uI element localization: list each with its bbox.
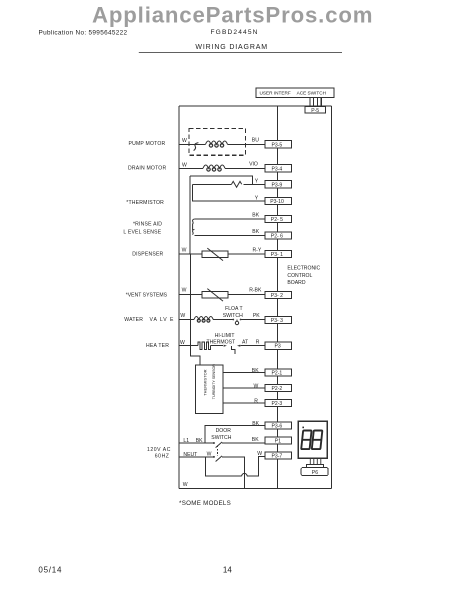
wire top border bbox=[179, 105, 331, 107]
junction dot L1 switch contact bbox=[213, 442, 215, 444]
svg-text:Y: Y bbox=[255, 178, 259, 184]
float switch contacts and float bbox=[236, 320, 238, 322]
wire electronic control board bus bbox=[276, 106, 278, 489]
svg-text:W: W bbox=[182, 287, 187, 293]
svg-text:60HZ: 60HZ bbox=[155, 453, 170, 459]
wire thermistor to P3-10 bbox=[192, 184, 264, 201]
svg-text:BK: BK bbox=[196, 438, 203, 444]
svg-text:P3-10: P3-10 bbox=[270, 199, 284, 205]
door switch pole 2 bbox=[216, 456, 222, 462]
svg-text:R: R bbox=[254, 398, 258, 404]
svg-text:SWITCH: SWITCH bbox=[211, 435, 231, 441]
svg-text:P3-5: P3-5 bbox=[272, 142, 283, 148]
heater element bbox=[198, 342, 211, 349]
svg-text:P2-2: P2-2 bbox=[272, 386, 283, 392]
wire dispenser row bbox=[179, 253, 265, 255]
svg-text:USER INTERF: USER INTERF bbox=[260, 91, 291, 96]
connector P3-3 bbox=[265, 316, 292, 323]
wire W bus water valve to turbidity sensor bbox=[191, 319, 201, 365]
display pedestal bar bbox=[306, 465, 323, 468]
wire thermistor loop to P3-9 bbox=[190, 176, 252, 184]
svg-text:P3: P3 bbox=[275, 344, 281, 350]
svg-text:Publication No: 5995645222: Publication No: 5995645222 bbox=[39, 30, 128, 37]
connector P3-6 bbox=[265, 422, 292, 429]
connector P3 heater bbox=[265, 342, 292, 349]
door switch pole 1 bbox=[216, 442, 222, 448]
svg-text:W: W bbox=[183, 482, 188, 488]
svg-text:ELECTRONIC: ELECTRONIC bbox=[287, 266, 320, 272]
svg-text:P2-1: P2-1 bbox=[272, 371, 283, 377]
dispenser actuator bbox=[202, 251, 228, 257]
display pins bbox=[310, 458, 321, 465]
pump motor thermal protector bbox=[194, 143, 199, 151]
door switch gang linkage bbox=[216, 446, 218, 456]
svg-text:W: W bbox=[180, 340, 185, 346]
svg-text:W: W bbox=[180, 313, 185, 319]
svg-text:W: W bbox=[257, 451, 262, 457]
connector P3-9 bbox=[265, 181, 292, 188]
rinse aid level sense connector bbox=[192, 219, 194, 235]
seven segment display module bbox=[298, 421, 327, 458]
svg-text:P6: P6 bbox=[312, 470, 318, 476]
svg-text:W: W bbox=[254, 383, 259, 389]
wire W bus vent to water valve bbox=[190, 295, 192, 320]
svg-text:Y: Y bbox=[255, 196, 259, 202]
turbidity sensor box bbox=[195, 365, 223, 414]
svg-text:W: W bbox=[182, 138, 187, 144]
svg-text:P2- 5: P2- 5 bbox=[271, 217, 283, 223]
hi-limit thermostat bimetal bbox=[231, 346, 235, 354]
svg-text:P3- 3: P3- 3 bbox=[271, 318, 283, 324]
connector P2-5 bbox=[265, 215, 292, 222]
svg-text:HI-LIMIT: HI-LIMIT bbox=[215, 333, 235, 339]
vent actuator bbox=[202, 292, 228, 298]
wire W bus dispenser to vent bbox=[190, 254, 192, 295]
connector P3-1 bbox=[265, 251, 292, 258]
pump motor dashed enclosure bbox=[189, 129, 246, 156]
svg-text:DRAIN MOTOR: DRAIN MOTOR bbox=[128, 166, 166, 172]
connector P3-5 bbox=[265, 141, 292, 148]
svg-text:TURBIDITY SENSOR: TURBIDITY SENSOR bbox=[212, 364, 216, 400]
svg-text:R-Y: R-Y bbox=[253, 247, 262, 253]
svg-text:L EVEL SENSE: L EVEL SENSE bbox=[123, 230, 161, 236]
svg-text:DISPENSER: DISPENSER bbox=[132, 252, 163, 258]
connector P3-10 bbox=[265, 197, 292, 204]
svg-text:*SOME MODELS: *SOME MODELS bbox=[179, 500, 231, 507]
svg-text:BK: BK bbox=[252, 212, 259, 218]
svg-text:05/14: 05/14 bbox=[38, 566, 62, 575]
svg-text:BK: BK bbox=[252, 229, 259, 235]
svg-text:PUMP MOTOR: PUMP MOTOR bbox=[129, 141, 166, 147]
svg-text:*VENT SYSTEMS: *VENT SYSTEMS bbox=[126, 292, 168, 298]
svg-text:VA LV E: VA LV E bbox=[150, 317, 175, 323]
drain motor coil bbox=[203, 165, 225, 168]
svg-text:P3-7: P3-7 bbox=[272, 454, 283, 460]
wire water valve row bbox=[179, 319, 265, 321]
svg-text:BOARD: BOARD bbox=[287, 280, 305, 286]
svg-text:BK: BK bbox=[252, 421, 259, 427]
svg-text:THERMISTOR: THERMISTOR bbox=[203, 369, 208, 395]
svg-text:P2- 6: P2- 6 bbox=[271, 233, 283, 239]
svg-text:SWITCH: SWITCH bbox=[223, 313, 243, 319]
wire left border neutral bus bbox=[178, 106, 180, 489]
wire turbidity sensor to P2-3 bbox=[223, 402, 265, 404]
wire drain motor row bbox=[179, 167, 265, 169]
svg-text:P3-6: P3-6 bbox=[272, 424, 283, 430]
connector P2-6 bbox=[265, 232, 292, 239]
svg-text:THERMOST: THERMOST bbox=[207, 340, 236, 346]
svg-text:P3- 1: P3- 1 bbox=[271, 252, 283, 258]
svg-text:WIRING DIAGRAM: WIRING DIAGRAM bbox=[195, 44, 268, 51]
seven segment digit 8 right bbox=[312, 431, 323, 450]
svg-text:P2-3: P2-3 bbox=[272, 401, 283, 407]
wire W bus vertical bbox=[189, 176, 191, 254]
svg-text:*THERMISTOR: *THERMISTOR bbox=[126, 200, 164, 206]
svg-text:BK: BK bbox=[252, 368, 259, 374]
seven segment digit 8 left bbox=[301, 431, 322, 450]
svg-text:W: W bbox=[182, 162, 187, 168]
title underline bbox=[139, 51, 342, 53]
svg-text:W: W bbox=[182, 247, 187, 253]
wire door switch pole 1 to P1 bbox=[222, 442, 265, 444]
svg-text:P3- 2: P3- 2 bbox=[271, 293, 283, 299]
svg-text:P-5: P-5 bbox=[311, 108, 319, 114]
svg-text:L1: L1 bbox=[183, 438, 189, 444]
connector P6 bbox=[301, 468, 328, 476]
connector P3-4 bbox=[265, 165, 292, 172]
svg-text:*RINSE AID: *RINSE AID bbox=[133, 222, 162, 228]
svg-text:BU: BU bbox=[252, 137, 259, 143]
svg-text:R-BK: R-BK bbox=[249, 287, 262, 293]
wire pump motor row bbox=[179, 143, 265, 145]
user interface switch box U1 bbox=[256, 88, 334, 98]
wire right border bbox=[330, 106, 332, 489]
svg-text:FGBD2445N: FGBD2445N bbox=[211, 29, 259, 36]
wire turbidity sensor to P2-1 bbox=[223, 372, 265, 374]
wire vent row bbox=[179, 294, 265, 296]
connector P-5 bbox=[305, 106, 326, 113]
svg-text:R: R bbox=[256, 340, 260, 346]
connector P2-3 bbox=[265, 399, 292, 406]
svg-text:14: 14 bbox=[223, 566, 232, 575]
wire heater row bbox=[179, 345, 265, 347]
water valve coil bbox=[194, 317, 213, 320]
svg-text:P3-4: P3-4 bbox=[272, 166, 283, 172]
svg-text:BK: BK bbox=[252, 437, 259, 443]
user interface switch pins bbox=[310, 98, 321, 106]
connector P1 bbox=[265, 437, 292, 444]
svg-text:120V AC: 120V AC bbox=[147, 447, 171, 453]
wire neutral tap loop to P3-7 with crossover hump bbox=[205, 457, 264, 477]
wire door switch pole 2 down to W return bbox=[222, 457, 244, 489]
svg-text:PK: PK bbox=[253, 313, 260, 319]
svg-text:FLOA T: FLOA T bbox=[225, 306, 242, 312]
svg-text:VIO: VIO bbox=[249, 161, 258, 167]
svg-text:P1: P1 bbox=[275, 439, 281, 445]
connector P3-2 bbox=[265, 291, 292, 298]
svg-text:HEA TER: HEA TER bbox=[146, 343, 169, 349]
junction dot neutral switch contact bbox=[213, 456, 215, 458]
float switch contact dots bbox=[232, 319, 234, 321]
svg-text:WATER: WATER bbox=[124, 317, 143, 323]
wire rinse aid sense to P2-5 bbox=[194, 218, 264, 220]
wire bottom border W return bbox=[179, 488, 331, 490]
pump motor coil bbox=[206, 141, 228, 144]
connector P2-2 bbox=[265, 384, 292, 391]
display decimal dot bbox=[302, 427, 304, 429]
thermistor with wire to P3-9 bbox=[192, 183, 264, 185]
svg-text:AT: AT bbox=[242, 340, 248, 346]
svg-text:NEUT: NEUT bbox=[183, 452, 197, 458]
wire door switch tap to P3-6 bbox=[205, 426, 265, 444]
wire L1 line in bbox=[179, 442, 213, 444]
svg-text:ACE SWITCH: ACE SWITCH bbox=[297, 91, 326, 96]
svg-text:DOOR: DOOR bbox=[216, 428, 232, 434]
hi-limit thermostat arrow contacts bbox=[224, 345, 227, 347]
wire neutral in bbox=[179, 456, 213, 458]
connector P2-1 bbox=[265, 369, 292, 376]
svg-text:CONTROL: CONTROL bbox=[287, 273, 312, 279]
connector P3-7 bbox=[265, 452, 292, 459]
wire turbidity sensor to P2-2 bbox=[223, 387, 265, 389]
svg-text:P3-9: P3-9 bbox=[272, 182, 283, 188]
svg-text:AppliancePartsPros.com: AppliancePartsPros.com bbox=[92, 3, 373, 28]
svg-text:W: W bbox=[207, 452, 212, 458]
wire rinse aid sense to P2-6 bbox=[194, 234, 264, 236]
